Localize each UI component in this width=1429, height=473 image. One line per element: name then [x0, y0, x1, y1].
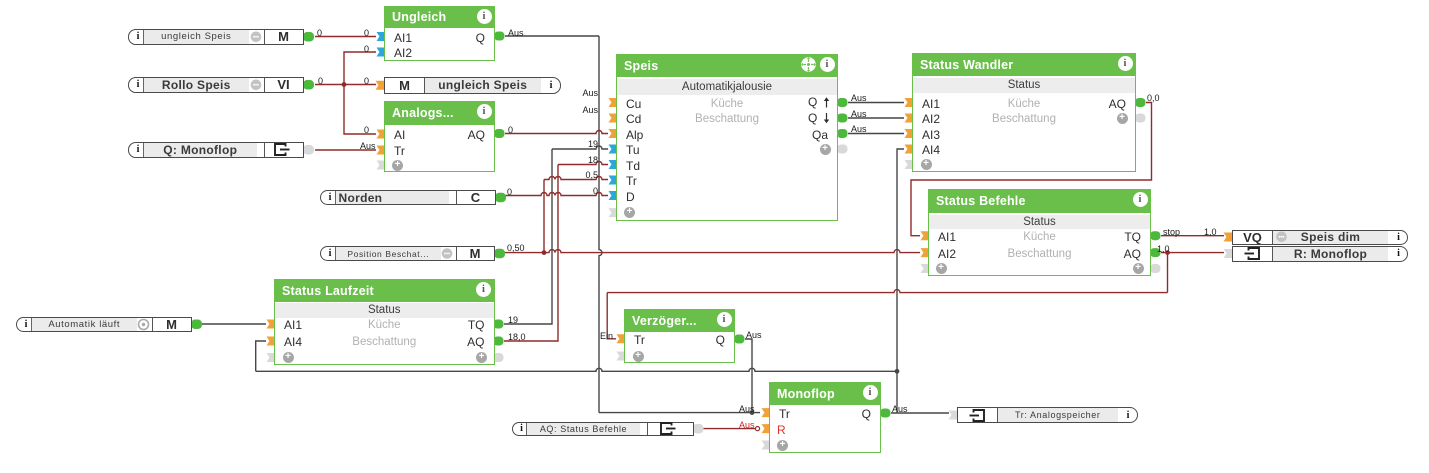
pins Monoflop Tr R Q: [762, 408, 771, 417]
info icon: [477, 9, 492, 24]
value label 18,0: [508, 333, 526, 341]
wire Status Wandler.AQ to Status Befehle.AI1: [911, 103, 1152, 236]
value label Aus: [360, 142, 376, 150]
value label 0: [508, 126, 513, 134]
pins Ungleich AI1 AI2 Q: [377, 32, 386, 41]
value label 0,0: [1147, 94, 1160, 102]
block Verzoegerung: [624, 309, 735, 364]
value label stop: [1163, 228, 1180, 236]
capsule Automatik laeuft M: [16, 317, 192, 333]
block Status Laufzeit: [274, 279, 495, 366]
expand plus icon: [624, 207, 635, 218]
wire Status Laufzeit.AQ into Speis.Td: [558, 162, 608, 165]
value label Ein: [553, 332, 613, 340]
wire Ungleich.Q to bus down (net Aus): [505, 35, 599, 37]
value label 0: [318, 77, 323, 85]
info icon: [863, 385, 878, 400]
value label Aus: [538, 106, 598, 114]
wire junction up to Ungleich.AI2: [344, 52, 376, 85]
expand plus icon: [1133, 263, 1144, 274]
wire AQ net down into Verzoegerung.Tr: [607, 293, 616, 339]
value label 0,50: [507, 244, 525, 252]
value label Aus: [538, 89, 598, 97]
expand plus icon: [820, 144, 831, 155]
wire branch into Speis.Tr: [544, 177, 608, 180]
value label 0,5: [538, 171, 598, 179]
wire Automatik laeuft to Status Laufzeit.AI1: [202, 323, 266, 325]
capsule VQ Speis dim: [1232, 230, 1408, 245]
expand plus icon: [777, 440, 788, 451]
info icon: [477, 104, 492, 119]
wire Speis.Qa to Status Wandler.AI3: [848, 133, 904, 135]
block Analogspeicher U2: [384, 101, 495, 172]
info icon: [476, 282, 491, 297]
wire Status Befehle.AQ to R: Monoflop: [1161, 252, 1224, 254]
block Monoflop: [769, 382, 881, 453]
wire Q: Monoflop ref to Analogspeicher.Tr: [315, 149, 376, 151]
value label Aus: [746, 331, 762, 339]
block Status Wandler: [912, 53, 1136, 172]
pins Analogspeicher AI Tr AQ: [377, 130, 386, 139]
wire Norden to Speis.D: [505, 193, 608, 196]
expand plus icon: [921, 159, 932, 170]
wire horizontal into Monoflop.Tr: [599, 412, 760, 414]
value label Aus: [851, 125, 867, 133]
value label 19: [538, 140, 598, 148]
Monoflop input R (red): [777, 422, 786, 438]
value label 0: [507, 188, 512, 196]
wire AQ net horizontal y292 to left: [607, 290, 1167, 293]
value label 0: [364, 45, 369, 53]
value label Aus: [739, 421, 755, 429]
wire Speis.Qdown to Status Wandler.AI2: [848, 117, 904, 119]
capsule Tr: Analogspeicher out: [957, 407, 1138, 423]
pins Speis outputs Qup Qdown Qa: [837, 98, 848, 107]
wire Verzoegerung.Q down to Monoflop.Tr junction: [745, 339, 752, 413]
capsule M ungleich Speis: [384, 77, 561, 94]
expand plus icon: [1117, 113, 1128, 124]
value label Aus: [851, 94, 867, 102]
wire Status Befehle.AQ branch down: [1167, 253, 1169, 293]
capsule R: Monoflop out: [1232, 246, 1408, 262]
pins Status Befehle AI1 AI2 TQ AQ: [921, 231, 930, 240]
Qdown arrow: [826, 113, 828, 122]
value label 19: [508, 316, 518, 324]
pins Status Laufzeit AI1 AI4 TQ AQ: [267, 320, 276, 329]
Speis output Qdown label: [808, 111, 817, 126]
wire AQ: Status Befehle ref to Monoflop.R: [700, 428, 755, 430]
value label 1,0: [1157, 245, 1170, 253]
wire Status Befehle.TQ to VQ Speis dim: [1161, 235, 1224, 237]
value label Aus: [892, 405, 908, 413]
capsule Position Beschattung M: [320, 246, 495, 261]
wire ungleich Speis to Ungleich.AI1: [315, 36, 376, 38]
value label 0: [538, 187, 598, 195]
block Status Befehle: [928, 189, 1151, 276]
value label 0: [364, 29, 369, 37]
value label Aus: [851, 110, 867, 118]
expand plus icon: [392, 160, 403, 171]
info icon: [1133, 192, 1148, 207]
inverter circle at Monoflop.R: [755, 427, 759, 431]
junction dot Rollo Speis net: [342, 82, 347, 87]
value label 1,0: [1204, 228, 1217, 236]
wire Monoflop.Q to Tr: Analogspeicher: [891, 412, 949, 414]
expand plus icon: [476, 352, 487, 363]
Qup arrow: [826, 99, 828, 108]
value label Aus: [508, 29, 524, 37]
wire branch up from 0,50 junction: [543, 180, 545, 253]
Speis output Qup label: [808, 95, 817, 110]
expand plus icon: [936, 263, 947, 274]
junction dot bus-Monoflop.Q net: [895, 369, 900, 374]
info icon: [717, 312, 732, 327]
value label 0: [317, 29, 322, 37]
wire Monoflop.Q net vertical up to Status Wandler.AI4: [897, 149, 904, 413]
wire Speis.Qup to Status Wandler.AI1: [848, 102, 904, 104]
wire Status Laufzeit.AI4 stub to bus: [256, 341, 266, 371]
value label 18: [538, 156, 598, 164]
wire Rollo Speis to junction: [315, 84, 344, 86]
junction dot at Monoflop.Tr feed: [750, 410, 755, 415]
capsule Norden C: [320, 190, 496, 205]
value label 0: [364, 126, 369, 134]
wire vertical x599 Ungleich.Q down to Monoflop.Tr: [599, 36, 602, 413]
junction dot Status Befehle.AQ net: [1165, 250, 1170, 255]
wire Status Laufzeit.TQ up to Speis.Tu (19): [504, 149, 552, 324]
wire junction to memory flag M ungleich Speis: [344, 84, 376, 86]
pins Speis inputs Cu Cd Alp Tu Td Tr D: [609, 98, 618, 107]
capsule Rollo Speis VI: [128, 77, 304, 93]
value label Aus: [739, 405, 755, 413]
pins Status Wandler AI1-AI4 AQ: [905, 98, 914, 107]
wire Status Laufzeit.AQ 18,0 up: [504, 165, 558, 342]
pins Verzoegerung Tr Q: [617, 334, 626, 343]
wire Status Laufzeit.TQ into Speis.Tu: [552, 146, 608, 149]
junction dot 0,50 net: [542, 250, 547, 255]
info icon: [820, 57, 835, 72]
wire junction down to Analogspeicher.AI: [344, 85, 376, 135]
block Ungleich U1: [384, 6, 495, 61]
wire Position Beschattung 0,50 to Status Befehle.AI2: [504, 250, 920, 253]
wire bus y371 from Status Laufzeit.AI4 to Monoflop.Q net: [256, 368, 897, 371]
value label 0: [364, 77, 369, 85]
info icon: [1118, 56, 1133, 71]
block Automatikjalousie Speis: [616, 54, 838, 221]
capsule ungleich Speis M: [128, 29, 304, 45]
wire Analogspeicher.AQ to Speis.Alp: [505, 131, 608, 134]
capsule Q: Monoflop ref: [128, 142, 304, 158]
capsule AQ: Status Befehle ref: [512, 422, 694, 437]
expand plus icon: [283, 352, 294, 363]
expand plus icon: [633, 351, 644, 362]
